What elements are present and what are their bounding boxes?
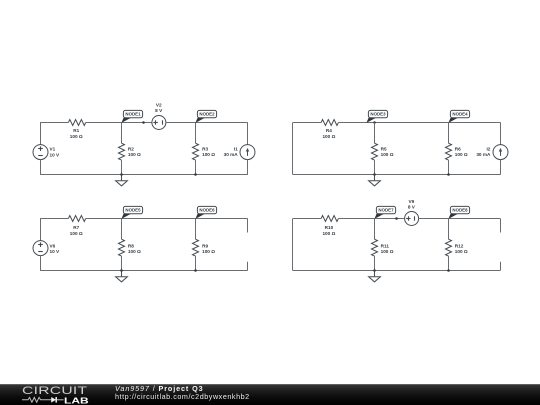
svg-text:100 Ω: 100 Ω (381, 152, 394, 157)
label R7 value (70, 225, 83, 236)
wire NODE4 to top-right corner (448, 122, 500, 124)
svg-text:I1: I1 (234, 147, 238, 152)
svg-text:NODE1: NODE1 (125, 112, 141, 117)
svg-text:100 Ω: 100 Ω (202, 249, 215, 254)
svg-text:R10: R10 (325, 225, 334, 230)
wire open stub right top (247, 219, 249, 233)
svg-text:100 Ω: 100 Ω (128, 152, 141, 157)
svg-text:10 V: 10 V (50, 152, 61, 157)
junction dot R2 bottom (120, 173, 123, 176)
label R1 value (70, 128, 83, 139)
svg-text:R5: R5 (381, 147, 387, 152)
label R10 value (322, 225, 335, 236)
label I2 value (476, 147, 491, 158)
label R6 value (455, 147, 468, 158)
resistor R10 (321, 216, 338, 222)
wire R8 to bottom rail (121, 256, 123, 270)
svg-text:R7: R7 (73, 225, 79, 230)
svg-text:100 Ω: 100 Ω (70, 134, 83, 139)
svg-text:100 Ω: 100 Ω (202, 152, 215, 157)
svg-text:V9: V9 (409, 199, 415, 204)
node NODE6 (195, 206, 216, 219)
junction dot R5 bottom (373, 173, 376, 176)
footer project text (115, 385, 250, 402)
wire NODE2 down to R3 (195, 123, 197, 144)
label V1 value (50, 147, 61, 158)
wire open stub right bottom (247, 262, 249, 271)
resistor R8 (119, 239, 125, 256)
wire bottom rail circuit D (293, 270, 501, 272)
wire NODE3 down to R5 (374, 123, 376, 144)
junction dot R8 bottom (120, 269, 123, 272)
wire NODE4 down to R6 (448, 123, 450, 144)
ground (369, 271, 381, 282)
wire NODE5 down to R8 (121, 219, 123, 240)
current source I1 (240, 145, 255, 160)
svg-text:100 Ω: 100 Ω (322, 231, 335, 236)
svg-text:100 Ω: 100 Ω (455, 249, 468, 254)
wire I1 to bottom-right corner (247, 160, 249, 175)
label R3 value (202, 147, 215, 158)
resistor R9 (193, 239, 199, 256)
CircuitLab logo wordmark (22, 385, 87, 397)
junction dot R9 bottom (194, 269, 197, 272)
node NODE4 (448, 110, 469, 123)
svg-text:8 V: 8 V (155, 108, 163, 113)
wire R5 to bottom rail (374, 160, 376, 174)
resistor R12 (446, 239, 452, 256)
wire R3 to bottom rail (195, 160, 197, 174)
label R8 value (128, 243, 141, 254)
svg-text:100 Ω: 100 Ω (70, 231, 83, 236)
wire R6 to bottom rail (448, 160, 450, 174)
wire NODE2 to top-right corner (196, 122, 248, 124)
node NODE2 (195, 110, 216, 123)
wire bottom rail circuit A (40, 174, 248, 176)
wire NODE1 to V2 (121, 122, 151, 124)
wire left edge top to V1 (40, 123, 42, 145)
svg-text:V1: V1 (50, 147, 56, 152)
svg-text:100 Ω: 100 Ω (322, 134, 335, 139)
wire open stub right top (500, 219, 502, 233)
node NODE3 (366, 110, 387, 123)
label R9 value (202, 243, 215, 254)
wire NODE8 to top-right corner (448, 218, 500, 220)
node A junction dot (142, 121, 145, 124)
svg-text:R11: R11 (381, 243, 390, 248)
wire NODE8 down to R12 (448, 219, 450, 240)
label R5 value (381, 147, 394, 158)
svg-text:NODE4: NODE4 (452, 112, 468, 117)
ground (116, 175, 128, 186)
resistor R6 (446, 143, 452, 160)
resistor R3 (193, 143, 199, 160)
svg-text:V6: V6 (50, 243, 56, 248)
wire right edge to I1 (247, 123, 249, 145)
svg-text:100 Ω: 100 Ω (128, 249, 141, 254)
junction dot R3 bottom (194, 173, 197, 176)
label R2 value (128, 147, 141, 158)
svg-text:NODE2: NODE2 (199, 112, 215, 117)
junction dot R5 top (373, 121, 376, 124)
label R4 value (322, 128, 335, 139)
svg-text:R4: R4 (326, 128, 332, 133)
resistor R4 (321, 120, 338, 126)
node NODE8 (448, 206, 469, 219)
svg-text:I2: I2 (486, 147, 490, 152)
node B junction dot (395, 217, 398, 220)
ground (116, 271, 128, 282)
svg-text:R1: R1 (73, 128, 79, 133)
resistor R1 (68, 120, 85, 126)
wire R2 to bottom rail (121, 160, 123, 174)
wire left edge circuit B (292, 123, 294, 175)
svg-text:8 V: 8 V (408, 205, 416, 210)
resistor R11 (372, 239, 378, 256)
voltage source V6 (33, 241, 48, 256)
wire top-left segment to R10 (293, 218, 321, 220)
wire top-left segment from V1 to R1 (40, 122, 68, 124)
svg-text:30 mA: 30 mA (224, 152, 239, 157)
node NODE1 (121, 110, 142, 123)
wire R1 to node NODE1 (86, 122, 122, 124)
svg-text:NODE8: NODE8 (452, 208, 468, 213)
label R12 value (455, 243, 468, 254)
svg-text:R12: R12 (455, 243, 464, 248)
voltage source V9 (405, 212, 419, 226)
node NODE5 (121, 206, 142, 219)
resistor R7 (68, 216, 85, 222)
resistor R2 (119, 143, 125, 160)
svg-text:100 Ω: 100 Ω (455, 152, 468, 157)
svg-text:NODE6: NODE6 (199, 208, 215, 213)
wire NODE1 down to R2 (121, 123, 123, 144)
wire left edge top to V6 (40, 219, 42, 241)
wire bottom rail circuit C (40, 270, 248, 272)
wire NODE3 to NODE4 (374, 122, 448, 124)
wire NODE5 to NODE6 (121, 218, 195, 220)
wire R7 to node NODE5 (86, 218, 122, 220)
svg-text:NODE5: NODE5 (125, 208, 141, 213)
wire V6 to bottom-left corner (40, 256, 42, 271)
wire top-left segment to R4 (293, 122, 321, 124)
wire NODE6 down to R9 (195, 219, 197, 240)
wire V9 to node NODE8 (419, 218, 449, 220)
wire top-left segment from V6 to R7 (40, 218, 68, 220)
wire bottom rail circuit B (293, 174, 501, 176)
wire NODE6 to top-right corner (196, 218, 248, 220)
wire I2 to bottom-right corner (500, 160, 502, 175)
svg-text:R3: R3 (202, 147, 208, 152)
svg-text:R6: R6 (455, 147, 461, 152)
voltage source V1 (33, 145, 48, 160)
wire R4 to node NODE3 (338, 122, 374, 124)
footer bar (0, 384, 540, 405)
wire V2 to node NODE2 (166, 122, 196, 124)
current source I2 (493, 145, 508, 160)
wire R9 to bottom rail (195, 256, 197, 270)
svg-text:NODE3: NODE3 (370, 112, 386, 117)
voltage source V2 (152, 116, 166, 130)
svg-text:100 Ω: 100 Ω (381, 249, 394, 254)
wire R11 to bottom rail (374, 256, 376, 270)
wire NODE7 to V9 (374, 218, 405, 220)
wire R12 to bottom rail (448, 256, 450, 270)
svg-text:30 mA: 30 mA (476, 152, 491, 157)
resistor R5 (372, 143, 378, 160)
wire open stub right bottom (500, 262, 502, 271)
svg-text:R8: R8 (128, 243, 134, 248)
ground (369, 175, 381, 186)
svg-text:NODE7: NODE7 (378, 208, 394, 213)
wire left edge circuit D (292, 219, 294, 271)
svg-text:R2: R2 (128, 147, 134, 152)
svg-text:R9: R9 (202, 243, 208, 248)
wire NODE7 down to R11 (374, 219, 376, 240)
label R11 value (381, 243, 394, 254)
junction dot R6 bottom (447, 173, 450, 176)
label V6 value (50, 243, 61, 254)
label V2 value (155, 102, 163, 113)
svg-text:V2: V2 (156, 102, 162, 107)
wire V1 to bottom-left corner (40, 160, 42, 175)
wire right edge to I2 (500, 123, 502, 145)
node NODE7 (374, 206, 395, 219)
label V9 value (408, 199, 416, 210)
label I1 value (224, 147, 239, 158)
junction dot R12 bottom (447, 269, 450, 272)
CircuitLab logo resistor-diode icon (22, 396, 64, 404)
svg-text:10 V: 10 V (50, 249, 61, 254)
junction dot R11 bottom (373, 269, 376, 272)
wire R10 to node NODE7 (338, 218, 374, 220)
